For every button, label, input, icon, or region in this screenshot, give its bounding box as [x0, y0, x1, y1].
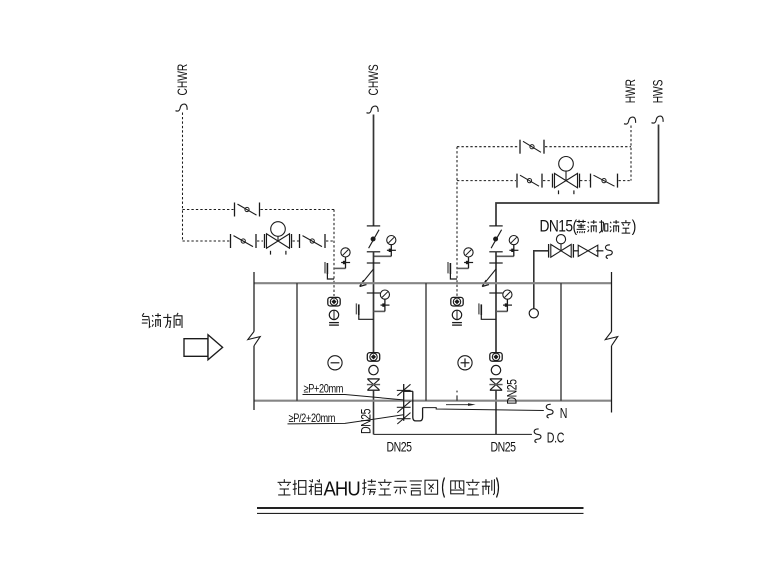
pressure gauge on CHWR drop: [334, 248, 350, 269]
AHU partition 3: [560, 283, 562, 401]
steam control valve with actuator: [549, 235, 574, 258]
pipe break symbol CHWS: [367, 106, 379, 113]
title underline double: [257, 508, 584, 513]
label DN25 right drain: [491, 439, 517, 455]
drain flow arrow: [446, 403, 476, 406]
union on HWS drop: [491, 365, 500, 374]
flange pair on CHWR drop: [329, 323, 339, 326]
CHWR valve-line pipe (dashed): [183, 240, 335, 242]
svg-text:N: N: [560, 405, 568, 421]
label DN25 left drain: [387, 439, 413, 455]
svg-text:AHU: AHU: [324, 478, 360, 501]
airflow arrow: [184, 335, 223, 360]
note >=P/2+20mm with leader: [288, 412, 404, 425]
HWR bypass pipe (dashed): [457, 146, 631, 148]
flange tick CHWS below box top: [367, 292, 380, 294]
three-way control valve with actuator (hot): [553, 157, 580, 195]
butterfly valve V1 on CHWR line: [231, 234, 257, 248]
AHU box top wall: [254, 282, 612, 284]
condensate drain pipe right: [495, 390, 497, 434]
HWS supply pipe: [496, 125, 659, 226]
HWR valve-line pipe (dashed): [457, 180, 631, 182]
butterfly valve on HWR bypass: [520, 140, 544, 154]
pressure gauge on HWS riser: [496, 236, 518, 257]
AHU partition 1: [296, 283, 298, 401]
HWR drop pipe to coil (dashed): [456, 147, 458, 296]
AHU box right wall with break: [605, 272, 617, 413]
control valve square (CHWS): [367, 353, 379, 362]
capped stub below box top (CHWS): [356, 303, 373, 319]
trap joint mark 1: [397, 384, 411, 395]
butterfly valve V1 on HWR line: [517, 174, 542, 188]
pipe break symbol HWS: [652, 116, 664, 123]
steam humidifier nozzle circle: [529, 309, 538, 318]
flow arrow on HWS at box top: [482, 269, 496, 287]
pipe label HWR: [623, 79, 639, 104]
AHU box left wall with break: [248, 272, 260, 410]
label DN25 vertical left: [358, 408, 374, 434]
svg-text:DN25: DN25: [387, 439, 413, 455]
svg-text:HWS: HWS: [650, 79, 666, 103]
capped stub on HWR drop: [448, 262, 457, 279]
globe valve on HWS drop: [489, 379, 502, 390]
HWR riser (dashed): [630, 126, 632, 181]
flange pair on HWR drop: [452, 323, 462, 326]
CHWR riser pipe (dashed): [182, 113, 184, 242]
capped stub on CHWR drop: [325, 262, 334, 279]
drain trap U-bend: [404, 391, 423, 421]
svg-text:HWR: HWR: [623, 79, 639, 104]
pipe break symbol CHWR: [176, 104, 188, 111]
pressure gauge on CHWS riser: [374, 236, 396, 257]
heating coil symbol: [458, 356, 472, 370]
label D.C: [547, 430, 565, 446]
flange tick HWS mid: [489, 251, 502, 253]
title text: [278, 478, 499, 501]
union on CHWS drop: [369, 365, 378, 374]
globe valve on CHWS drop: [367, 379, 380, 390]
svg-text:≥P+20mm: ≥P+20mm: [304, 383, 344, 396]
svg-text:D.C: D.C: [547, 430, 565, 446]
steam shutoff valve: [578, 245, 598, 256]
three-way control valve with actuator (chilled): [265, 222, 292, 255]
cooling coil symbol: [328, 356, 342, 370]
capped stub below box top (HWS): [479, 303, 496, 319]
drain collection pipe D.C: [374, 433, 532, 435]
motorized valve on CHWR drop: [328, 297, 340, 306]
trap joint mark 3: [397, 413, 411, 424]
pipe label CHWR: [175, 63, 191, 95]
flange tick CHWS mid: [367, 251, 380, 253]
heating section drain centerline mark: [456, 391, 458, 401]
pipe break at D.C: [534, 429, 541, 443]
flange tick HWS below box top: [489, 292, 502, 294]
svg-text:): ): [632, 217, 637, 236]
flange tick CHWS lower: [367, 262, 380, 264]
CHWS supply pipe upper: [373, 115, 375, 226]
butterfly valve V2 on HWR line: [591, 174, 618, 188]
label DN15 steam line: [540, 217, 637, 236]
CHWR drop pipe to coil (dashed): [333, 210, 335, 297]
flange tick CHWS upper: [367, 225, 380, 227]
control valve square (HWS): [490, 353, 502, 362]
label DN25 vertical right: [504, 379, 520, 405]
pressure gauge on HWR drop: [457, 248, 473, 269]
AHU partition 2: [425, 283, 427, 401]
trap joint mark 2: [397, 401, 411, 412]
AHU box bottom wall: [254, 400, 612, 402]
svg-text:CHWS: CHWS: [366, 64, 382, 95]
svg-text:DN15(: DN15(: [540, 217, 578, 236]
label N: [560, 405, 568, 421]
butterfly valve on CHWS riser: [369, 230, 380, 249]
pressure gauge below box top (HWS): [496, 290, 512, 311]
pipe break at N: [546, 404, 553, 418]
pipe break end of steam line: [605, 245, 612, 259]
steam pipe: [534, 251, 604, 309]
HWS pipe through box top: [495, 252, 497, 352]
label airflow direction: [142, 313, 182, 328]
pipe label CHWS: [366, 64, 382, 95]
CHWS pipe through box top: [373, 252, 375, 352]
drain trap vertical pipe: [403, 384, 405, 421]
flange tick HWS upper: [489, 225, 502, 227]
CHWR bypass pipe (dashed): [183, 209, 335, 211]
note >=P+20mm with leader: [303, 383, 404, 400]
pipe break symbol HWR: [624, 117, 636, 124]
svg-text:CHWR: CHWR: [175, 63, 191, 95]
pressure gauge below box top (CHWS): [374, 290, 390, 311]
condensate drain pipe left: [373, 390, 375, 434]
butterfly valve on CHWR bypass: [235, 203, 260, 217]
union on HWR drop: [452, 310, 461, 319]
union on CHWR drop: [329, 310, 338, 319]
flange tick HWS lower: [489, 262, 502, 264]
butterfly valve on HWS riser: [491, 230, 502, 249]
butterfly valve V2 on CHWR line: [300, 234, 326, 248]
svg-text:DN25: DN25: [491, 439, 517, 455]
pipe label HWS: [650, 79, 666, 103]
motorized valve on HWR drop: [451, 297, 463, 306]
drain outlet pipe to N: [423, 408, 544, 411]
svg-text:DN25: DN25: [504, 379, 520, 405]
flow arrow on CHWS at box top: [360, 269, 374, 287]
